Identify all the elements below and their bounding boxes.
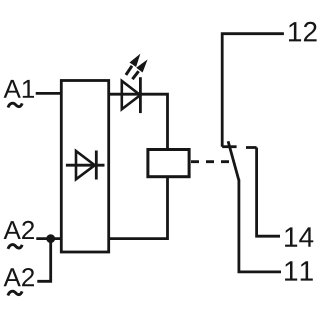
- diode V1 cathode bar: [95, 151, 98, 180]
- wire terminal 12: [222, 34, 284, 147]
- diode V1 anode triangle: [76, 151, 95, 179]
- LED light arrow 1 shaft: [126, 66, 132, 75]
- terminal label 11: [285, 261, 313, 280]
- terminal label A2 second: [4, 268, 34, 286]
- relay coil K1: [148, 150, 189, 177]
- LED light arrow 2 shaft: [132, 71, 138, 79]
- wire second A2 up to junction: [37, 239, 50, 282]
- rectifier block: [61, 81, 108, 253]
- wire terminal 14: [257, 148, 280, 237]
- diode V1 inside block: through-line: [66, 164, 105, 167]
- AC marker ~ under second A2: [8, 291, 22, 295]
- terminal label A1: [4, 80, 34, 98]
- wire A1 to rectifier block: [36, 92, 62, 95]
- terminal label A2: [4, 221, 34, 239]
- wire blade to terminal 11: [239, 180, 281, 272]
- NO contact stub 14: [246, 146, 257, 149]
- LED anode triangle: [122, 81, 141, 109]
- AC marker ~ under A1: [8, 103, 22, 107]
- terminal label 14: [285, 227, 313, 246]
- mechanical link dashed: [191, 160, 230, 163]
- wire rectifier to LED and on to coil: [109, 94, 168, 149]
- LED light arrow 1 head: [130, 54, 141, 67]
- terminal label 12: [289, 22, 317, 42]
- wire A2 to junction and block: [36, 237, 61, 240]
- NC contact stub 12: [222, 145, 236, 148]
- switch blade common: [228, 141, 239, 180]
- LED light arrow 2 head: [136, 59, 147, 72]
- LED cathode bar: [139, 77, 142, 113]
- junction dot: [46, 234, 55, 243]
- AC marker ~ under A2: [8, 245, 22, 249]
- wire coil bottom to rectifier block: [109, 177, 168, 239]
